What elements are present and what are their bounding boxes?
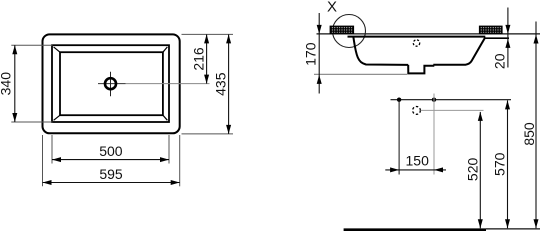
svg-text:520: 520 bbox=[464, 158, 480, 182]
svg-text:570: 570 bbox=[492, 152, 508, 176]
svg-text:435: 435 bbox=[212, 72, 228, 96]
svg-text:340: 340 bbox=[0, 72, 14, 96]
svg-text:170: 170 bbox=[302, 42, 318, 66]
svg-text:595: 595 bbox=[99, 166, 123, 182]
svg-text:500: 500 bbox=[99, 143, 123, 159]
svg-text:20: 20 bbox=[492, 53, 508, 69]
svg-text:150: 150 bbox=[406, 153, 430, 169]
svg-text:216: 216 bbox=[191, 47, 207, 71]
svg-text:X: X bbox=[327, 0, 337, 15]
svg-text:850: 850 bbox=[521, 122, 537, 146]
